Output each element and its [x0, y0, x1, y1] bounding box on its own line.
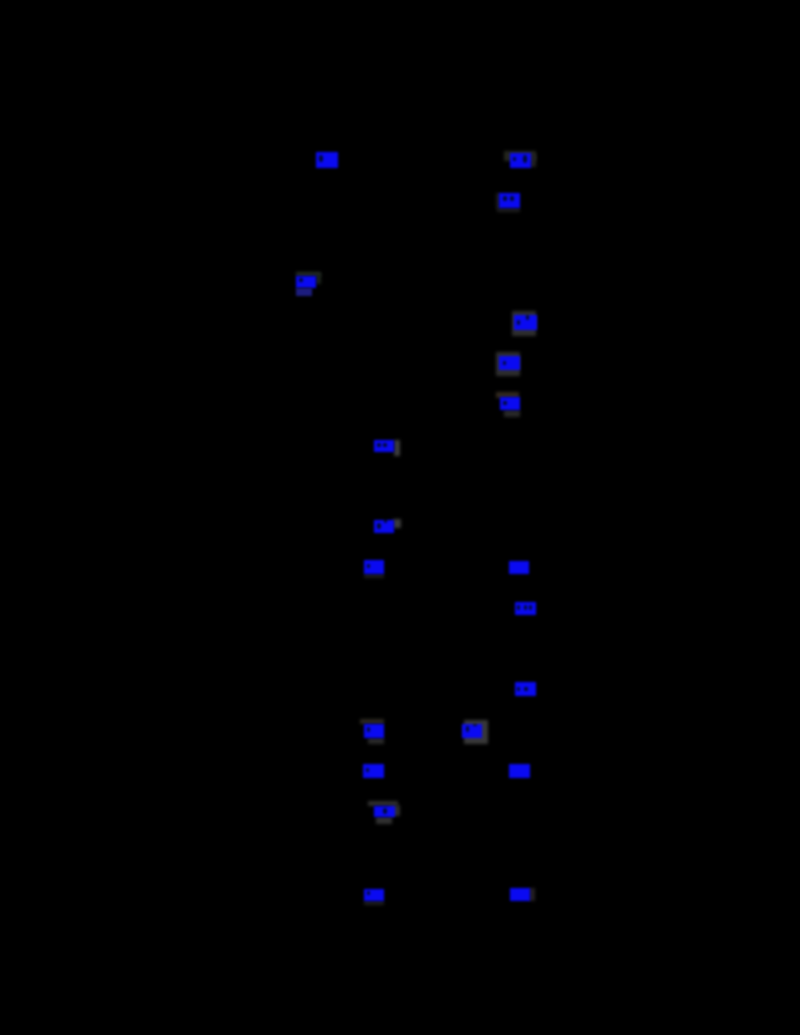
artifact square behind F	[496, 352, 520, 376]
artifact above N	[360, 719, 384, 724]
link box B	[510, 153, 531, 168]
artifact below-right of G	[504, 410, 520, 417]
link box E	[514, 315, 537, 330]
artifact square behind O	[464, 720, 488, 744]
link box J	[364, 560, 384, 574]
link box K	[509, 561, 529, 574]
link box P	[363, 764, 384, 778]
artifact patch behind R	[368, 801, 398, 806]
artifact right of H	[394, 440, 400, 456]
link box I	[374, 520, 394, 533]
link box A	[316, 152, 338, 168]
artifact below J	[364, 574, 384, 578]
artifact patch near B right	[530, 154, 536, 167]
link box N	[364, 724, 384, 738]
artifact patch below C	[497, 208, 520, 212]
artifact band above G	[496, 392, 519, 398]
link box Q	[509, 764, 530, 778]
link box L	[515, 602, 536, 615]
link box H	[374, 440, 394, 452]
artifact patch near C	[496, 193, 500, 209]
artifact square behind E	[512, 311, 536, 336]
artifact patch near B	[504, 151, 536, 161]
link box C	[499, 193, 520, 208]
artifact right of I	[393, 519, 401, 528]
link box D upper	[296, 276, 316, 288]
link box F	[499, 356, 520, 370]
link box S	[364, 889, 384, 901]
link box O	[462, 724, 482, 738]
artifact right of R	[390, 805, 400, 816]
artifact right of D	[316, 274, 321, 284]
artifact below R	[376, 817, 392, 824]
link box R	[374, 806, 395, 817]
artifact below N	[368, 738, 384, 744]
link box M	[515, 682, 536, 696]
artifact band above D	[296, 272, 321, 276]
link box G	[500, 397, 520, 410]
link box D lower	[296, 288, 312, 296]
artifact right of T	[529, 888, 535, 901]
artifact below S	[364, 901, 384, 905]
link box T	[510, 888, 530, 901]
